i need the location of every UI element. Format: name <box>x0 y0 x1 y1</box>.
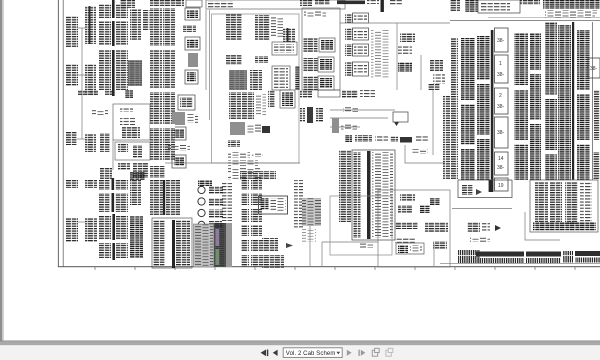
relay rows R3 <box>345 44 353 56</box>
breaker CB1 <box>185 8 200 20</box>
relay labels <box>371 30 389 78</box>
wire row labels <box>228 160 258 166</box>
ladder col LF <box>558 25 571 180</box>
toolbar background <box>0 345 600 360</box>
wire <box>322 241 378 243</box>
wire <box>165 162 300 164</box>
right top table row3 <box>545 14 595 18</box>
ECM slab gray col <box>226 223 232 267</box>
cab box B8 <box>530 180 598 232</box>
wire row labels <box>228 152 250 158</box>
component block M1 <box>128 60 142 86</box>
comp row C6 <box>415 135 428 141</box>
note table T2 <box>194 224 214 267</box>
first-page icon <box>261 350 267 357</box>
solenoid box U7 <box>393 112 408 122</box>
switch cluster S10 <box>304 38 318 52</box>
connector P2 left rows <box>99 180 110 212</box>
connector J2 bar <box>89 6 91 44</box>
ECM slab green band <box>216 249 220 265</box>
ladder col LB <box>477 36 490 180</box>
connector P5 rows <box>150 180 163 215</box>
fuse panel box F14 <box>495 152 509 175</box>
ECM slab U6 <box>214 223 232 267</box>
wire <box>81 28 83 139</box>
wire row labels <box>228 168 260 173</box>
connector J13 <box>133 163 148 178</box>
connector P4 band3 <box>150 92 162 124</box>
connector P4 lower rows <box>150 50 162 88</box>
resistor block R5 <box>300 90 312 98</box>
switch cluster S12 <box>304 58 318 72</box>
connector row top <box>240 171 276 180</box>
sheet bottom border <box>58 266 600 267</box>
connector P4 band4 <box>150 128 162 160</box>
connector J51 <box>316 108 323 122</box>
attach-page icon <box>372 350 377 356</box>
wire <box>205 10 207 90</box>
wire <box>525 212 560 240</box>
sensor box U3 <box>272 42 297 55</box>
wire <box>452 208 512 210</box>
connector J11 <box>100 168 112 180</box>
fuse panel box F10 <box>495 28 509 52</box>
connector J5 <box>66 64 78 86</box>
connector J32 <box>255 15 270 40</box>
connector P6 left rows <box>153 220 165 266</box>
ECM block U5 <box>295 66 300 90</box>
fuse F1 <box>183 25 196 32</box>
label box <box>343 107 358 112</box>
top connector row J40 <box>150 0 184 6</box>
connector bar P8 <box>307 107 313 123</box>
sheet left border line <box>57 0 60 267</box>
switch cluster SC1 <box>262 238 278 251</box>
switch S3 <box>172 127 186 140</box>
switch rows SW1 <box>467 222 480 232</box>
top margin labels <box>120 0 135 8</box>
component block M2 <box>130 216 143 258</box>
wire <box>432 90 434 155</box>
svg-text:38-: 38- <box>497 72 505 78</box>
relay box K12 <box>130 172 145 180</box>
svg-text:19: 19 <box>498 183 504 189</box>
connector P1 left rows <box>99 4 111 45</box>
monitor box U11 <box>259 196 288 214</box>
wire row labels <box>252 153 263 157</box>
ladder white gaps <box>99 18 590 243</box>
wire row labels <box>228 175 263 180</box>
lamp L3 <box>398 62 412 72</box>
gauge G4 <box>198 209 205 216</box>
detach-page icon <box>386 350 391 356</box>
fuse panel box F12 <box>495 88 509 114</box>
cab bottom band <box>533 222 596 231</box>
connector J47 <box>428 84 440 90</box>
connector J24 <box>85 218 97 242</box>
switch S4 <box>172 155 186 168</box>
connector J23 <box>66 218 78 242</box>
connector P4 lower right rows <box>163 50 175 88</box>
wire loop <box>330 110 395 127</box>
cab ladder L9 <box>535 182 548 222</box>
comp row C4 <box>390 136 398 142</box>
relay box K10 <box>113 104 150 140</box>
switch S2 <box>172 112 185 125</box>
comp block C5 <box>400 137 412 143</box>
sensor rows SE7 <box>395 238 415 244</box>
switch box S13 <box>318 57 334 72</box>
connector P4 right rows <box>163 8 175 46</box>
top connector bar P7 <box>381 0 384 12</box>
gauge G1 <box>198 180 212 186</box>
comp row C2 <box>355 135 372 142</box>
sensor box U9 <box>396 243 424 254</box>
top bus bar <box>337 1 365 5</box>
bottom strip connector X4 <box>563 251 573 263</box>
wire <box>209 10 211 120</box>
svg-text:14: 14 <box>498 156 504 162</box>
svg-text:2: 2 <box>499 93 502 99</box>
lamp L1 <box>400 33 415 42</box>
next-page icon <box>347 350 352 356</box>
sensor box U10 <box>280 90 295 108</box>
cab ladder L11 <box>565 182 578 224</box>
junction arrow <box>476 189 482 195</box>
flasher labels <box>247 124 262 133</box>
ECM slab violet band <box>216 229 220 246</box>
wire <box>396 23 398 90</box>
ecm label <box>360 243 373 248</box>
connector J14 <box>78 90 88 96</box>
right edge rows <box>594 90 600 140</box>
connector P4 band4 right <box>163 128 175 160</box>
wire <box>78 27 85 29</box>
connector P4 band3 right <box>163 92 175 124</box>
svg-text:1: 1 <box>499 61 502 67</box>
connector P5 head rows <box>150 166 165 178</box>
connector J33 <box>283 28 295 42</box>
left viewer strip <box>0 0 2 341</box>
connector J10 <box>118 143 128 152</box>
comp row C1 <box>345 135 352 142</box>
bottom strip baseline <box>440 263 600 265</box>
switch box S16 <box>318 90 340 97</box>
connector P3 right rows <box>116 216 128 258</box>
note table T3 <box>302 198 321 226</box>
connector J30 <box>226 14 242 40</box>
connector J8 <box>85 134 96 152</box>
wire <box>112 140 114 170</box>
wire <box>77 138 85 140</box>
relay box K8 <box>353 62 369 76</box>
top box B2 <box>186 0 202 7</box>
fuse panel box F15 <box>495 178 509 191</box>
connector J22 <box>130 180 141 205</box>
sensor box U4 <box>272 66 290 90</box>
gauge G3 <box>198 198 205 205</box>
connector J54 <box>268 90 275 108</box>
top rows J41 <box>300 0 312 6</box>
bottom strip connector X2 <box>476 252 524 257</box>
labels <box>256 94 266 116</box>
junction bar <box>489 180 491 192</box>
flasher box FL1 <box>230 122 245 135</box>
relay rows R4 <box>345 62 353 76</box>
bottom strip connector X1 <box>458 250 480 263</box>
switch box S11 <box>319 38 335 52</box>
pin table T1 <box>229 70 247 90</box>
diode D12 <box>495 225 501 231</box>
fuse panel box F13 <box>495 117 509 148</box>
svg-text:38-: 38- <box>590 66 598 72</box>
pre-slab rows <box>222 183 232 221</box>
connector P6 bar <box>172 220 175 268</box>
connector J2 <box>85 6 96 44</box>
ladder col LG <box>577 30 590 180</box>
bottom strip connector X5 <box>575 251 600 256</box>
connector J50 <box>300 108 305 122</box>
ladder feed col <box>443 95 450 180</box>
relay K3 <box>185 70 198 84</box>
gauge G2 <box>198 186 205 193</box>
sensor rows SE5 <box>395 222 418 229</box>
relay K2 <box>188 53 198 67</box>
harness rows col <box>339 150 351 222</box>
connector J4 <box>143 10 150 30</box>
connector J52 <box>229 92 241 119</box>
comp row C3 <box>375 135 388 142</box>
note text <box>302 228 316 242</box>
section box B1 <box>212 14 300 163</box>
wire <box>420 55 422 90</box>
ladder main bar <box>491 30 494 192</box>
connector J7 <box>66 132 77 145</box>
right top table <box>543 0 600 9</box>
switch cluster S14 <box>304 76 318 90</box>
top rows J44 <box>390 0 402 6</box>
switch box S15 <box>318 76 334 90</box>
cab ladder L12 <box>580 182 592 222</box>
switch S1 <box>178 95 195 110</box>
section B4 header labels <box>304 11 326 17</box>
connector P1 lower-left rows <box>99 50 111 90</box>
connector P5 bar <box>163 180 165 215</box>
relay rows R1 <box>345 14 353 23</box>
relay box K5 <box>353 13 369 23</box>
labels <box>271 17 283 37</box>
sensor SE2 <box>430 198 440 205</box>
top rows J43 <box>367 0 379 4</box>
ladder col LC <box>514 33 528 180</box>
svg-text:Vol. 2 Cab Schem: Vol. 2 Cab Schem <box>286 351 336 357</box>
switch rows SW2 <box>482 222 490 232</box>
connector J9 <box>100 133 110 152</box>
wire <box>433 244 435 266</box>
connector P3 bar <box>112 214 115 260</box>
sensor block SE8 <box>433 241 447 249</box>
relay K11 contacts <box>133 145 142 158</box>
wire <box>78 221 85 223</box>
connector J15 <box>90 90 98 96</box>
connector J6 <box>85 64 96 96</box>
prev-page icon <box>273 350 278 356</box>
ladder border <box>592 22 594 180</box>
relay box K11 <box>115 142 150 160</box>
harness gaps <box>241 205 262 209</box>
connector J31 <box>226 55 242 65</box>
right edge rows lower <box>593 152 600 180</box>
switch cluster SC2 <box>262 255 284 268</box>
connector J20 <box>66 180 78 188</box>
sheet dropdown <box>283 348 342 358</box>
svg-text:38-: 38- <box>497 104 505 110</box>
connector J35 <box>250 70 262 90</box>
connector J1 <box>66 16 78 48</box>
sensor rows SE3 <box>398 205 412 213</box>
harness rows HA <box>241 177 249 267</box>
connector P2 bar <box>112 178 115 212</box>
ladder col LA <box>461 38 475 180</box>
right edge box <box>588 58 600 78</box>
section box B5 <box>330 196 392 255</box>
lamp L2 <box>398 46 412 55</box>
connector P1 right rows <box>116 4 128 45</box>
connector J16 <box>105 90 112 95</box>
edge rows <box>294 180 303 228</box>
buzzer BZ1 <box>262 126 270 133</box>
section box B6 <box>378 190 450 267</box>
ladder col LD <box>530 33 541 180</box>
relay box K6 <box>353 28 369 40</box>
connector P1 bar <box>112 0 115 96</box>
connector J34 <box>255 56 268 63</box>
connector J21 <box>85 180 97 188</box>
relay K10 rows <box>120 107 133 112</box>
svg-text:38-: 38- <box>497 38 505 44</box>
pump bar <box>332 118 339 133</box>
connector J48 <box>342 90 358 98</box>
labels <box>412 149 428 154</box>
junction rows <box>462 185 473 195</box>
connector P1 lower-right rows <box>116 50 128 90</box>
connector J49 <box>360 90 375 97</box>
relay box K7 <box>353 44 369 56</box>
sensor rows SE1 <box>400 194 415 201</box>
connector J12 <box>118 163 130 170</box>
ladder bar 2 <box>572 22 574 180</box>
connector P2 right rows <box>115 180 128 212</box>
relay K10 contacts <box>122 127 140 138</box>
connector P5 right rows <box>166 180 180 215</box>
wire <box>321 242 323 266</box>
right top box <box>478 0 520 13</box>
right top rows <box>520 0 540 5</box>
wire <box>488 17 600 19</box>
right top rows dark <box>465 0 478 12</box>
harness list box U8 <box>352 150 395 240</box>
relay K10 rows2 <box>120 118 135 125</box>
harness rows HB <box>251 177 262 267</box>
bottom strip connector X3 <box>526 252 561 257</box>
connector P4 left rows <box>150 8 162 46</box>
ladder col LE <box>545 22 557 180</box>
last-page icon <box>358 350 359 356</box>
connector J46 <box>433 74 445 84</box>
connector P6 box <box>152 218 192 268</box>
relay K13 <box>125 90 133 98</box>
cab ladder L10 <box>550 182 562 222</box>
wire <box>309 226 311 266</box>
arrow label <box>286 243 293 248</box>
label row <box>168 145 190 151</box>
sensor SE4 <box>420 205 430 213</box>
connector P6 right rows <box>176 220 190 266</box>
sheet bottom tick marks <box>95 267 575 270</box>
sensor rows SE6 <box>425 222 448 232</box>
right top table row2 <box>545 10 597 13</box>
connector P3 left rows <box>99 216 111 258</box>
connector J3 <box>130 9 141 40</box>
sheet inner border line <box>62 0 65 267</box>
top rows J42 <box>315 0 330 5</box>
right top table left rows <box>450 0 460 12</box>
connector J53 <box>242 92 254 119</box>
top long box B3 <box>206 0 345 9</box>
connector J45 <box>430 60 443 72</box>
junction box B7 <box>458 180 512 198</box>
wire <box>450 20 600 22</box>
connector J55 <box>228 140 240 147</box>
relay K1 <box>185 37 200 50</box>
pump labels <box>341 124 357 130</box>
diode D11 <box>394 122 399 126</box>
svg-text:38-: 38- <box>497 165 505 171</box>
fuse panel box F11 <box>495 55 509 83</box>
gauge G5 <box>198 221 205 228</box>
diode row D10 <box>92 110 108 115</box>
relay rows R2 <box>345 28 353 40</box>
wire <box>78 74 85 76</box>
wire labels <box>470 237 490 242</box>
wire <box>405 145 445 163</box>
wire <box>340 22 450 24</box>
toolbar divider bar <box>0 341 600 342</box>
svg-text:38-: 38- <box>497 130 505 136</box>
ladder bar PA <box>451 38 458 180</box>
section box B4 <box>302 8 340 90</box>
